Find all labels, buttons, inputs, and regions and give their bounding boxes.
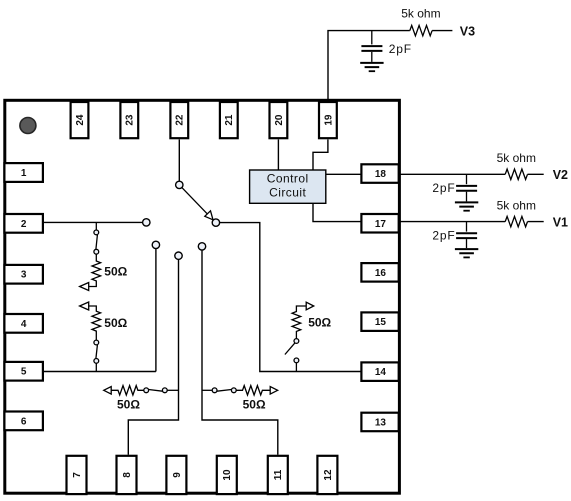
pin 9 [166,456,186,494]
switch S1 arm [96,235,98,249]
resistor R2 5k ohm [505,169,527,179]
svg-text:Circuit: Circuit [269,186,306,200]
pin 7 [67,456,87,494]
svg-text:V3: V3 [460,24,475,38]
wire vertical from node RF2 down to pin5 wire [155,249,157,372]
switch S5 arm arrowhead [205,211,213,220]
switch S5 pole circle [176,181,183,188]
pin 23 [120,102,138,138]
capacitor C3 2pF [371,31,373,45]
svg-text:14: 14 [375,367,387,378]
svg-text:18: 18 [375,169,387,180]
wire pin18 to R2 [399,173,506,175]
pin 6 [4,412,43,431]
node RF3 terminal circle [175,252,182,259]
svg-text:13: 13 [375,418,387,429]
svg-text:5: 5 [21,367,27,378]
svg-text:10: 10 [222,469,233,481]
resistor R3 5k ohm [410,25,432,35]
switch S3 arm [149,390,163,392]
node RF4 terminal circle [198,243,205,250]
capacitor C2 2pF [466,174,468,184]
svg-text:2: 2 [21,219,27,230]
pin 1 indicator dot [20,118,36,134]
pin 15 [361,312,398,331]
wire from RFC right then down then right to pin 14 [220,223,362,372]
switch S6 contact bottom [294,358,299,363]
svg-text:9: 9 [172,472,183,478]
svg-text:V1: V1 [553,216,568,230]
pin 20 [270,102,288,138]
svg-text:17: 17 [375,219,387,230]
pin 11 [268,456,288,494]
wire pin22 down to switch S5 [178,140,180,182]
svg-text:Control: Control [267,172,309,186]
svg-text:22: 22 [175,114,186,126]
pin 17 [361,214,398,233]
switch S3 contact right [162,388,167,393]
svg-text:7: 7 [72,472,83,478]
svg-text:19: 19 [323,114,334,126]
pin 2 [4,214,43,233]
ground below C1 [455,249,478,253]
svg-text:23: 23 [125,114,136,126]
pin 16 [361,263,398,282]
svg-text:2pF: 2pF [389,42,412,56]
resistor RC 50ohm horizontal [111,386,144,395]
svg-text:50Ω: 50Ω [104,264,127,278]
arrow terminal of RE [306,302,314,310]
arrow terminal of RA [80,283,89,291]
wire R2 to V2 [528,173,544,175]
switch S1 contact bottom [94,249,99,254]
switch S6 arm open [285,343,295,355]
resistor RA 50ohm vertical [89,254,101,286]
pin 12 [317,456,337,494]
switch S5 arm [182,188,207,214]
svg-text:5k ohm: 5k ohm [497,151,536,165]
wire left chain stub [167,389,178,391]
pin 18 [361,164,398,183]
svg-text:12: 12 [323,469,334,481]
svg-text:50Ω: 50Ω [117,397,140,411]
switch S2 contact bottom [94,359,99,364]
wire control circuit to pin17 [313,203,361,221]
wire pin2 to node [44,221,143,223]
wire R1 to V1 [528,221,544,223]
svg-text:50Ω: 50Ω [104,316,127,330]
wire S2 to pin5 wire [95,363,97,371]
wire pin20 to control circuit [277,140,279,171]
wire pin19 to control circuit [313,140,328,171]
resistor RE 50ohm vertical [292,306,306,339]
wire vertical from node RF3 down then left to pin 8 [128,259,178,454]
switch S6 contact top [294,339,299,344]
arrow terminal of RD [270,387,278,395]
node RF1 terminal circle [143,219,150,226]
svg-text:50Ω: 50Ω [308,316,331,330]
svg-text:20: 20 [274,114,285,126]
pin 24 [71,102,89,138]
switch S4 contact left [212,388,217,393]
svg-text:50Ω: 50Ω [243,397,266,411]
pin 4 [4,314,43,333]
pin 21 [220,102,238,138]
svg-text:8: 8 [122,472,133,478]
wire tap from pin2 wire down to switch S1 [95,222,97,230]
svg-text:1: 1 [21,168,27,179]
pin 3 [4,265,43,284]
pin 10 [217,456,237,494]
wire vertical from node RF4 down then right to pin 11 [202,250,278,455]
pin 13 [361,413,398,432]
pin 1 [4,163,43,182]
resistor RB 50ohm vertical [89,306,101,340]
switch S4 arm [217,390,231,392]
wire stub pin14 tap [295,363,297,372]
switch S1 contact top [94,230,99,235]
switch S2 arm [96,345,98,359]
wire V3 net from chip top [328,31,410,100]
svg-text:3: 3 [21,270,27,281]
svg-text:V2: V2 [553,168,568,182]
svg-text:15: 15 [375,317,387,328]
ground below C3 [360,63,383,67]
switch S4 contact right [231,388,236,393]
capacitor C1 2pF [466,222,468,232]
pin 14 [361,362,398,381]
switch S2 contact top [94,340,99,345]
svg-text:11: 11 [273,469,284,480]
svg-text:21: 21 [224,114,235,126]
svg-text:2pF: 2pF [432,181,455,195]
svg-text:4: 4 [21,319,27,330]
node RFC throw circle [212,219,219,226]
wire pin17 to R1 [399,221,506,223]
resistor R1 5k ohm [505,216,527,226]
wire R3 to V3 [432,30,452,32]
wire control circuit to pin18 [326,173,362,175]
svg-text:16: 16 [375,268,387,279]
node RF2 terminal circle [152,241,159,248]
ground below C2 [455,202,478,206]
wire pin5 [44,371,156,373]
svg-text:2pF: 2pF [432,228,455,242]
switch S3 contact left [144,388,149,393]
chip outline [5,100,400,493]
svg-text:6: 6 [21,416,27,427]
svg-text:24: 24 [75,114,86,126]
pin 19 [319,102,337,138]
svg-text:5k ohm: 5k ohm [497,198,536,212]
resistor RD 50ohm horizontal [236,386,270,395]
wire right chain stub [202,389,212,391]
svg-text:5k ohm: 5k ohm [401,6,440,20]
pin 22 [170,102,188,138]
control circuit U1 box [250,170,326,203]
pin 8 [117,456,137,494]
arrow terminal of RC [104,387,112,395]
arrow terminal of RB [80,302,89,310]
pin 5 [4,362,43,381]
